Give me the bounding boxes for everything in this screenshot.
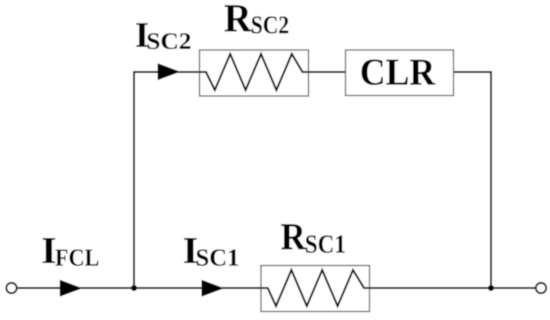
label IFCL xyxy=(43,238,99,266)
arrow ISC1 xyxy=(202,280,225,297)
junction node left xyxy=(131,285,137,291)
terminal left xyxy=(6,283,16,293)
label ISC2 xyxy=(136,23,190,49)
resistor RSC2 zigzag xyxy=(200,54,309,90)
resistor RSC2 box xyxy=(200,50,309,96)
wire: right vertical branch xyxy=(490,71,492,289)
wire: bottom main right segment xyxy=(365,287,537,289)
CLR box xyxy=(346,50,454,96)
junction node right xyxy=(488,285,494,291)
label CLR xyxy=(362,59,436,85)
wire: CLR to right corner xyxy=(453,71,492,73)
arrow ISC2 xyxy=(158,63,181,80)
wire: top branch horizontal to resistor xyxy=(133,71,206,73)
label RSC1 xyxy=(281,224,345,253)
label ISC1 xyxy=(184,238,238,266)
terminal right xyxy=(536,283,546,293)
label RSC2 xyxy=(225,5,289,33)
wire: left vertical branch xyxy=(133,71,135,289)
wire: resistor RSC2 to CLR xyxy=(303,71,347,73)
resistor RSC1 box xyxy=(261,266,370,312)
arrow IFCL xyxy=(60,280,83,297)
resistor RSC1 zigzag xyxy=(261,270,370,306)
wire: bottom main left segment xyxy=(17,287,269,289)
